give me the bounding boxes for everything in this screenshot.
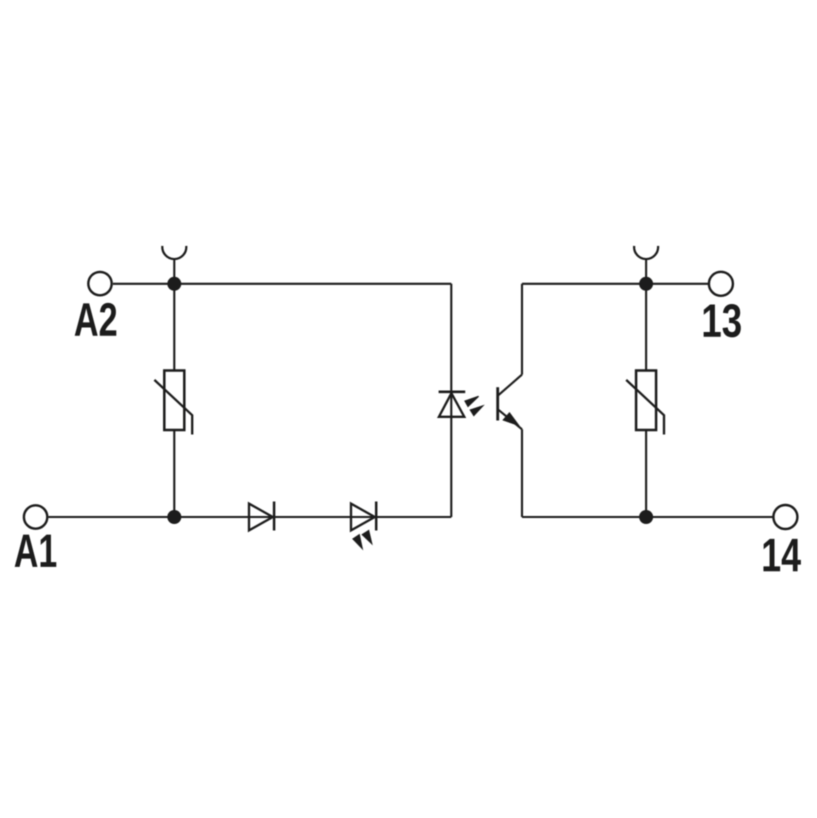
diode D1 cathode bar [273, 502, 276, 531]
wire left branch lower [173, 430, 175, 517]
label 14 [763, 539, 800, 571]
wire A2 to node [113, 283, 174, 285]
optocoupler LED U1 cathode bar [439, 390, 466, 393]
wire top left [174, 283, 451, 285]
node junction A2 [167, 277, 181, 291]
LED D2 emission arrow 2 [362, 531, 372, 544]
wire left branch upper [173, 284, 175, 371]
optocoupler LED U1 triangle [439, 393, 464, 417]
socket contact right [634, 246, 658, 259]
wire collector vertical [521, 284, 523, 375]
wire input loop right vertical [450, 284, 452, 517]
varistor R2 strike [626, 380, 664, 435]
phototransistor Q1 base [496, 387, 499, 420]
wire output top [522, 283, 708, 285]
phototransistor Q1 collector slant [498, 375, 522, 396]
label A1 [15, 535, 57, 567]
wire socket stub right [645, 259, 647, 284]
wire bottom left [174, 516, 451, 518]
varistor R2 body [636, 371, 656, 431]
varistor R1 strike [154, 380, 192, 435]
optocoupler light arrow 1 [465, 396, 479, 406]
LED D2 emission arrow 1 [353, 535, 362, 549]
node junction 14 [639, 510, 653, 524]
wire A1 to node [49, 516, 175, 518]
label A2 [75, 303, 117, 336]
wire socket stub left [173, 259, 175, 284]
optocoupler light arrow 2 [470, 406, 483, 416]
terminal 14 [773, 505, 797, 529]
LED D2 [351, 504, 375, 531]
phototransistor Q1 emitter slant [498, 409, 522, 429]
terminal 13 [709, 272, 733, 296]
node junction A1 [167, 510, 181, 524]
terminal A2 [88, 272, 111, 295]
diode D1 [249, 504, 273, 531]
varistor R1 body [164, 371, 184, 431]
LED D2 cathode bar [375, 502, 378, 531]
wire right branch upper [645, 284, 647, 371]
phototransistor Q1 emitter arrow [502, 412, 520, 427]
wire output bottom [522, 516, 773, 518]
socket contact left [162, 246, 186, 259]
node junction 13 [639, 277, 653, 291]
label 13 [704, 304, 741, 337]
wire right branch lower [645, 430, 647, 517]
wire emitter vertical [521, 429, 523, 517]
terminal A1 [24, 505, 47, 528]
